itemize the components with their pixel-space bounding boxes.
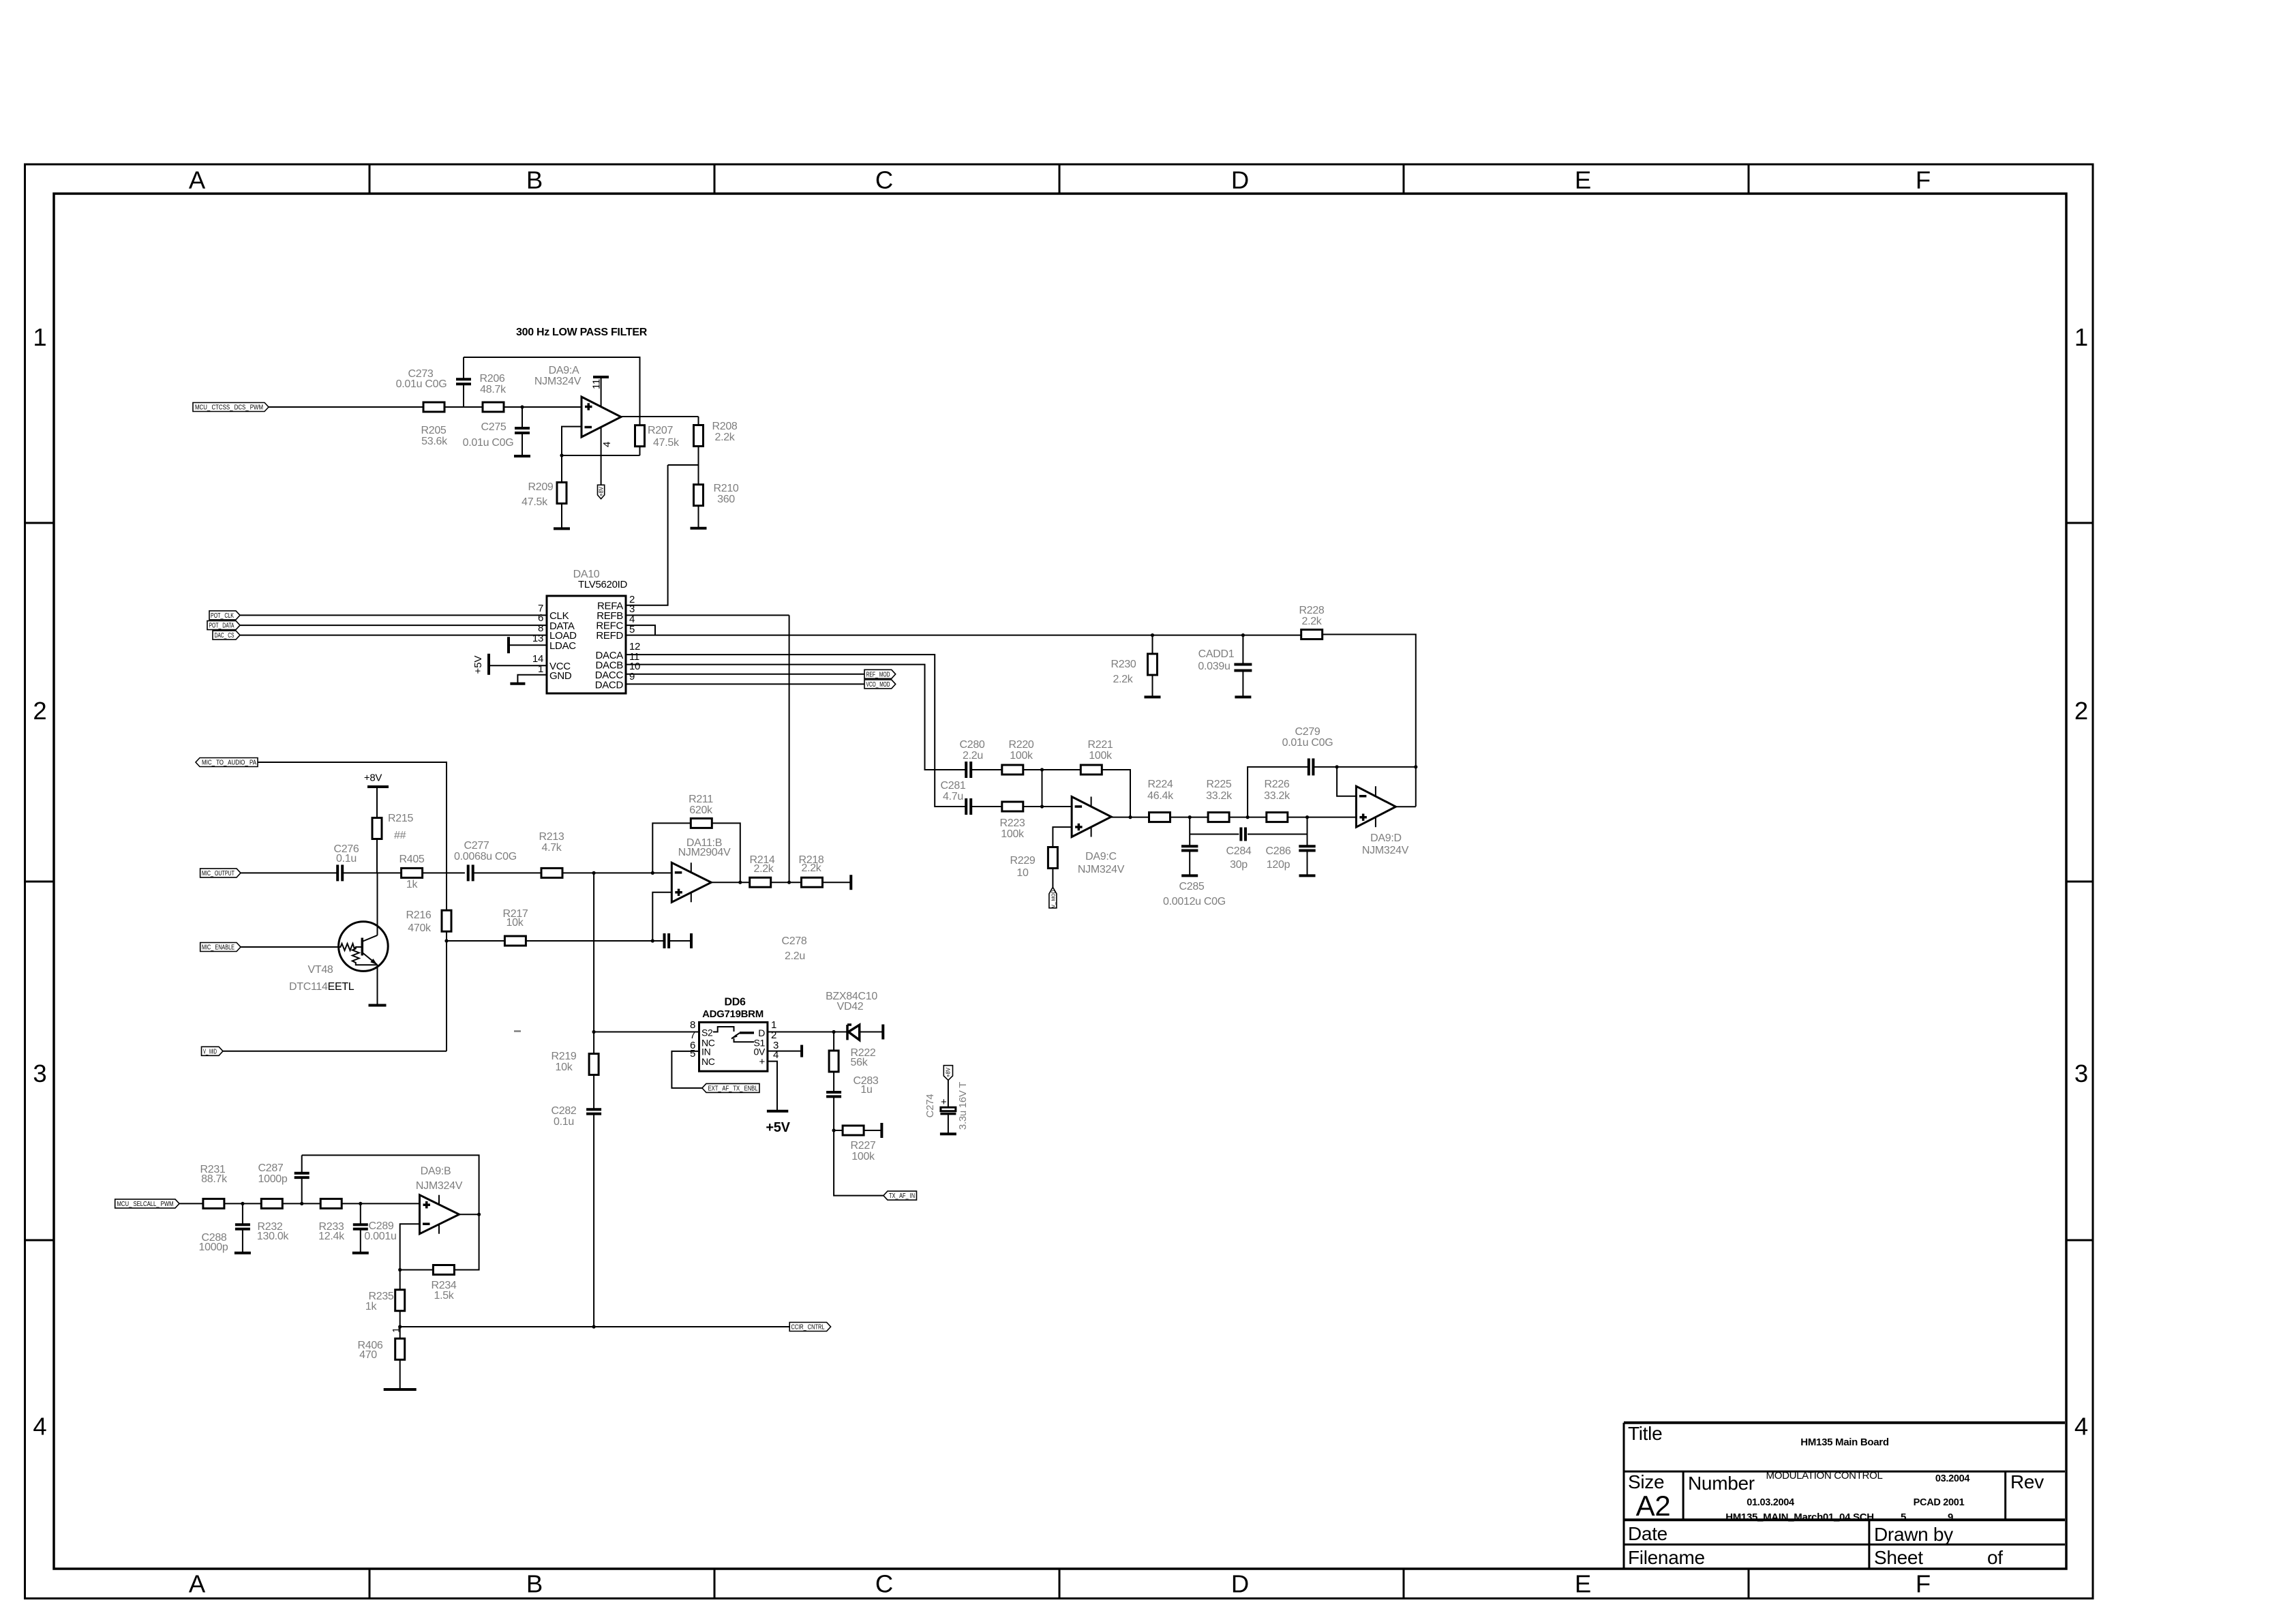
svg-text:A: A	[189, 166, 206, 194]
svg-text:C287: C287	[258, 1162, 283, 1174]
wire MIC_TO_AUDIO_PA down to mic line	[258, 762, 447, 873]
svg-text:1k: 1k	[406, 879, 419, 890]
wire R221 feedback to output	[1102, 770, 1130, 817]
svg-text:R219: R219	[551, 1051, 576, 1062]
wire MIC_OUTPUT to C276	[241, 872, 337, 873]
wire R206 to op-amp + input	[504, 406, 581, 408]
svg-text:2.2k: 2.2k	[753, 863, 774, 875]
net flag CCIR_CNTRL	[789, 1323, 830, 1332]
resistor R222	[833, 1032, 834, 1051]
svg-text:2.2u: 2.2u	[963, 750, 983, 762]
ground R209	[554, 527, 570, 530]
ground R230	[1145, 695, 1161, 698]
svg-text:0.039u: 0.039u	[1198, 661, 1230, 672]
wire R223 to DA9:C minus	[1023, 806, 1072, 807]
pin 10 DACC to REF_MOD	[626, 674, 864, 675]
resistor R227	[834, 1130, 843, 1131]
resistor R220	[1002, 765, 1023, 775]
svg-text:DAC_ CS: DAC_ CS	[215, 632, 235, 640]
wire DA9:B output	[459, 1214, 479, 1215]
svg-text:+: +	[941, 1096, 947, 1108]
svg-text:Date: Date	[1628, 1523, 1667, 1544]
svg-text:EXT_ AF_ TX_ ENBL: EXT_ AF_ TX_ ENBL	[708, 1085, 758, 1092]
svg-text:4.7k: 4.7k	[541, 842, 562, 854]
svg-text:11: 11	[591, 379, 603, 389]
pin 13 LDAC stub	[509, 644, 547, 646]
switch symbol inside DD6	[713, 1027, 734, 1032]
net flag TX_AF_IN	[883, 1191, 917, 1200]
capacitor C284 bridge	[1190, 834, 1239, 835]
resistor R219	[589, 1054, 599, 1075]
pin 9 DACD to VCO_MOD	[626, 683, 864, 685]
svg-text:R206: R206	[479, 373, 504, 385]
resistor R216	[446, 873, 447, 910]
svg-text:DA9:A: DA9:A	[549, 365, 579, 376]
svg-text:1.5k: 1.5k	[434, 1290, 454, 1302]
capacitor CADD1	[1241, 633, 1245, 637]
svg-text:##: ##	[394, 830, 406, 841]
svg-text:GND: GND	[549, 670, 572, 682]
wire CCIR_CNTRL net	[400, 1326, 789, 1327]
svg-text:4.7u: 4.7u	[943, 791, 963, 802]
svg-text:C280: C280	[959, 739, 984, 751]
wire R233 to DA9:B plus	[342, 1203, 420, 1204]
svg-text:Number: Number	[1688, 1473, 1755, 1494]
svg-text:MCU_ SELCALL_ PWM: MCU_ SELCALL_ PWM	[117, 1201, 174, 1208]
svg-text:S2: S2	[701, 1027, 713, 1038]
resistor R223	[1002, 802, 1023, 811]
resistor R231	[203, 1199, 224, 1208]
svg-text:Filename: Filename	[1628, 1547, 1705, 1568]
op-amp U DA9:B	[420, 1195, 459, 1234]
svg-text:B: B	[526, 1570, 543, 1598]
svg-text:R207: R207	[648, 425, 673, 436]
svg-text:+5V: +5V	[472, 655, 484, 674]
svg-text:DA9:D: DA9:D	[1370, 832, 1402, 844]
IC DA10 TLV5620ID	[547, 596, 626, 693]
svg-text:R208: R208	[712, 421, 737, 432]
wire R217 to C278	[526, 940, 664, 942]
svg-text:R205: R205	[421, 425, 446, 436]
op-amp U DA9:D	[1356, 786, 1395, 827]
capacitor C289	[360, 1203, 361, 1224]
pin 11 power DA9:A	[601, 377, 602, 406]
pin 4 power DA9:A	[601, 427, 602, 485]
zener diode VD42 BZX84C10	[834, 1032, 847, 1033]
svg-text:100k: 100k	[1001, 828, 1025, 840]
svg-text:VCO_ MOD: VCO_ MOD	[866, 681, 890, 689]
svg-text:1: 1	[538, 663, 543, 675]
svg-text:12.4k: 12.4k	[318, 1231, 345, 1242]
wire output DA9:A	[621, 416, 699, 417]
svg-text:R213: R213	[539, 831, 564, 843]
svg-text:C281: C281	[940, 780, 965, 792]
capacitor C278	[663, 933, 666, 948]
svg-text:360: 360	[717, 494, 735, 505]
resistor R214	[750, 877, 771, 887]
net flag MCU_SELCALL_PWM	[115, 1199, 179, 1208]
svg-text:NC: NC	[701, 1056, 715, 1067]
svg-text:0.01u C0G: 0.01u C0G	[463, 437, 514, 449]
wire inverting feedback	[562, 427, 640, 455]
svg-text:0.1u: 0.1u	[554, 1116, 574, 1128]
svg-text:10: 10	[1016, 867, 1029, 879]
ground C275	[514, 455, 530, 457]
net flag MIC_OUTPUT	[200, 869, 241, 877]
capacitor C279	[1248, 767, 1309, 817]
wire mic minus node down to DD6	[593, 873, 594, 1054]
svg-text:R220: R220	[1008, 739, 1033, 751]
svg-text:R230: R230	[1111, 659, 1136, 670]
svg-text:2.2k: 2.2k	[1301, 616, 1322, 627]
wire R226 to DA9:D plus	[1287, 817, 1357, 818]
wire DA9:D minus jog	[1337, 767, 1356, 796]
capacitor C274 standalone	[943, 1066, 952, 1081]
svg-text:4: 4	[773, 1049, 779, 1061]
IC DD6 ADG719BRM	[699, 1022, 768, 1071]
svg-text:Rev: Rev	[2010, 1471, 2044, 1492]
net flag MIC_TO_AUDIO_PA	[196, 758, 258, 767]
resistor R209	[561, 455, 562, 483]
net flag V_MID	[202, 1047, 224, 1055]
resistor R235	[399, 1270, 401, 1291]
transistor VT48 DTC114EETL	[339, 922, 389, 972]
border frame	[25, 164, 2094, 1599]
svg-text:POT_ CLK: POT_ CLK	[211, 612, 234, 620]
wire R232 to R233	[283, 1203, 321, 1204]
svg-text:F: F	[1916, 1570, 1931, 1598]
wire DA11:B plus input	[652, 892, 671, 941]
svg-text:01.03.2004: 01.03.2004	[1747, 1497, 1794, 1508]
wire DA11:B output to R214	[711, 882, 750, 883]
svg-text:5: 5	[690, 1048, 695, 1059]
svg-text:3: 3	[33, 1059, 46, 1087]
wire to TX_AF_IN	[834, 1130, 883, 1196]
svg-text:+8V: +8V	[946, 1067, 952, 1077]
wire mic enable line to V_MID riser	[446, 941, 447, 1051]
ground VT48 emitter	[369, 1004, 387, 1007]
svg-text:2.2k: 2.2k	[1113, 674, 1133, 685]
svg-text:HM135_MAIN_March01_04.SCH: HM135_MAIN_March01_04.SCH	[1725, 1512, 1874, 1523]
wire R217 line	[447, 940, 505, 942]
wire DA9:D output	[1395, 806, 1415, 807]
svg-text:E: E	[1575, 166, 1591, 194]
svg-text:47.5k: 47.5k	[653, 437, 680, 449]
svg-text:2.2k: 2.2k	[714, 432, 735, 443]
svg-text:of: of	[1987, 1547, 2003, 1568]
capacitor C281	[965, 798, 967, 815]
net flag MIC_ENABLE	[200, 943, 241, 952]
svg-text:0.001u: 0.001u	[364, 1231, 396, 1242]
capacitor C275	[522, 407, 523, 428]
svg-text:R225: R225	[1206, 779, 1231, 790]
wire C287 feedback rail	[302, 1155, 479, 1214]
ground R210	[691, 527, 707, 530]
svg-text:1k: 1k	[365, 1301, 378, 1312]
capacitor C285	[1189, 817, 1190, 847]
stray dash mark	[514, 1030, 521, 1032]
svg-text:100k: 100k	[1089, 750, 1113, 762]
resistor R226	[1267, 813, 1288, 822]
svg-text:9: 9	[629, 671, 635, 682]
svg-text:R210: R210	[713, 483, 738, 494]
pin 12 DACA	[626, 655, 966, 807]
resistor R230	[1151, 633, 1154, 637]
svg-text:C278: C278	[781, 935, 806, 947]
capacitor C280	[965, 762, 967, 778]
pin 14 VCC +5V bar	[489, 665, 547, 666]
wire REFA riser	[626, 465, 668, 605]
wire R218 stub end	[822, 882, 851, 883]
net flag VCO_MOD	[864, 680, 896, 689]
net flag DAC_CS	[213, 631, 240, 640]
capacitor C286	[1307, 817, 1308, 847]
svg-text:CADD1: CADD1	[1198, 648, 1235, 660]
svg-text:V_ MID: V_ MID	[203, 1048, 217, 1055]
wire MCU_CTCSS_DCS_PWM to R205	[269, 406, 423, 408]
svg-text:F: F	[1916, 166, 1931, 194]
svg-text:120p: 120p	[1267, 859, 1290, 871]
svg-text:NJM324V: NJM324V	[1078, 864, 1125, 875]
svg-text:2.2u: 2.2u	[785, 950, 805, 962]
net flag POT_CLK	[209, 611, 240, 620]
op-amp U DA11:B	[671, 862, 711, 902]
capacitor C273	[463, 384, 464, 407]
svg-text:VT48: VT48	[307, 964, 333, 976]
wire DA9:C output	[1111, 817, 1150, 818]
capacitor C277	[467, 864, 470, 881]
net flag POT_DATA	[207, 621, 240, 630]
capacitor C283	[833, 1071, 834, 1092]
svg-text:53.6k: 53.6k	[421, 436, 448, 447]
svg-text:2: 2	[2074, 697, 2088, 725]
wire DAC_CS to pin 8	[240, 635, 547, 636]
svg-text:NJM2904V: NJM2904V	[678, 847, 731, 858]
svg-text:NJM324V: NJM324V	[416, 1180, 463, 1192]
svg-text:D: D	[1231, 166, 1249, 194]
wire C276 to R405	[343, 872, 402, 873]
svg-text:10k: 10k	[507, 917, 524, 929]
wire R220 to R221	[1023, 769, 1081, 770]
svg-text:LDAC: LDAC	[549, 640, 576, 652]
svg-text:R209: R209	[528, 481, 553, 493]
svg-text:A2: A2	[1636, 1490, 1671, 1522]
node R209 junction	[560, 453, 563, 457]
wire C281 to R223	[971, 806, 1002, 807]
wire C277 to R213	[474, 872, 542, 873]
capacitor C282	[586, 1108, 601, 1111]
resistor R233	[320, 1199, 342, 1208]
wire R208 to REFA riser	[668, 464, 699, 466]
svg-text:300 Hz LOW PASS FILTER: 300 Hz LOW PASS FILTER	[516, 327, 648, 338]
svg-text:46.4k: 46.4k	[1147, 790, 1174, 802]
wire REFB riser down	[789, 615, 790, 882]
svg-text:PCAD 2001: PCAD 2001	[1914, 1497, 1965, 1508]
op-amp U DA9:A	[581, 397, 621, 437]
capacitor C276	[336, 864, 339, 881]
power +5V bar	[767, 1110, 788, 1113]
resistor R229	[1048, 847, 1057, 869]
power flag +8V at pin 4	[598, 485, 605, 498]
svg-text:1000p: 1000p	[199, 1242, 228, 1253]
ground C289	[352, 1252, 369, 1254]
resistor R228	[1301, 630, 1323, 640]
capacitor C287	[301, 1177, 303, 1203]
svg-text:Sheet: Sheet	[1874, 1547, 1923, 1568]
wire DA9:B minus to R234 node	[400, 1224, 420, 1269]
wire R228 to feedback riser	[1323, 635, 1416, 807]
pin 3 0V stub	[768, 1051, 802, 1052]
svg-text:0.01u C0G: 0.01u C0G	[396, 378, 447, 390]
title block	[1624, 1423, 2065, 1569]
svg-text:100k: 100k	[1010, 750, 1033, 762]
resistor R215	[372, 818, 382, 839]
wire R405 to C277	[422, 872, 465, 873]
svg-text:TX_ AF_ IN: TX_ AF_ IN	[889, 1192, 915, 1200]
svg-text:R223: R223	[999, 817, 1025, 829]
svg-text:0.1u: 0.1u	[336, 853, 357, 864]
svg-text:NJM324V: NJM324V	[1362, 845, 1409, 856]
resistor R225	[1208, 813, 1229, 822]
wire R224 to R225	[1170, 817, 1209, 818]
svg-text:POT_ DATA: POT_ DATA	[209, 622, 235, 630]
net flag REF_MOD	[864, 670, 896, 678]
svg-text:R229: R229	[1010, 855, 1035, 867]
svg-text:D: D	[1231, 1570, 1249, 1598]
resistor R211 feedback	[652, 823, 691, 873]
svg-text:C275: C275	[481, 421, 506, 433]
ground C286	[1299, 874, 1316, 877]
svg-text:0.0012u C0G: 0.0012u C0G	[1163, 896, 1226, 907]
svg-text:MCU_ CTCSS_ DCS_ PWM: MCU_ CTCSS_ DCS_ PWM	[195, 404, 263, 412]
svg-text:C277: C277	[464, 840, 489, 852]
svg-text:C: C	[875, 166, 893, 194]
svg-text:REF_ MOD: REF_ MOD	[866, 671, 890, 678]
pin 3 REFB	[626, 614, 789, 616]
svg-text:R211: R211	[689, 794, 713, 805]
wire R219 to C282	[593, 1074, 594, 1109]
svg-text:2: 2	[33, 697, 46, 725]
svg-text:1u: 1u	[860, 1084, 872, 1096]
ground R406	[384, 1388, 417, 1391]
svg-text:DACD: DACD	[595, 680, 624, 691]
svg-text:R227: R227	[850, 1140, 875, 1152]
svg-text:DA9:B: DA9:B	[421, 1166, 451, 1177]
net flag EXT_AF_TX_ENBL	[671, 1051, 702, 1088]
svg-text:88.7k: 88.7k	[201, 1173, 228, 1185]
svg-text:+5V: +5V	[766, 1120, 790, 1135]
wire POT_CLK to pin 7	[240, 614, 547, 616]
svg-text:1: 1	[2074, 323, 2088, 351]
node junction C275 tap	[520, 405, 524, 408]
wire DA9:C plus input to R229	[1053, 827, 1072, 847]
svg-text:3.3u 16V T: 3.3u 16V T	[957, 1082, 969, 1130]
svg-text:56k: 56k	[851, 1057, 868, 1068]
resistor R213	[541, 868, 562, 877]
svg-text:4: 4	[33, 1413, 46, 1441]
svg-text:R215: R215	[388, 813, 413, 824]
svg-text:E: E	[1575, 1570, 1591, 1598]
svg-text:R221: R221	[1087, 739, 1113, 751]
svg-text:R228: R228	[1299, 605, 1324, 616]
svg-text:03.2004: 03.2004	[1935, 1473, 1970, 1484]
node minus junction top	[1040, 768, 1044, 771]
svg-text:2.2k: 2.2k	[801, 862, 821, 874]
svg-text:MIC_ OUTPUT: MIC_ OUTPUT	[202, 870, 235, 877]
svg-text:13: 13	[532, 633, 543, 644]
svg-text:DA9:C: DA9:C	[1085, 851, 1117, 862]
svg-text:MODULATION CONTROL: MODULATION CONTROL	[1766, 1470, 1883, 1482]
svg-text:0.01u C0G: 0.01u C0G	[1282, 737, 1333, 749]
op-amp U DA9:C	[1072, 797, 1111, 837]
svg-text:1: 1	[33, 323, 46, 351]
svg-text:130.0k: 130.0k	[257, 1231, 290, 1242]
resistor R406	[399, 1327, 401, 1339]
svg-text:C285: C285	[1179, 881, 1204, 892]
pin 11 DACB	[626, 665, 966, 770]
svg-text:DTC114EETL: DTC114EETL	[289, 981, 354, 993]
resistor R205	[423, 402, 444, 412]
svg-text:CCIR_ CNTRL: CCIR_ CNTRL	[791, 1324, 825, 1332]
pin 1 GND	[517, 675, 547, 684]
pin 4 plus to +5V	[768, 1062, 777, 1111]
wire to R231	[179, 1203, 203, 1204]
wire R215 to mic line	[376, 839, 378, 873]
svg-text:C: C	[875, 1570, 893, 1598]
svg-text:48.7k: 48.7k	[480, 384, 507, 395]
svg-text:Title: Title	[1628, 1423, 1662, 1444]
svg-text:+: +	[759, 1056, 766, 1068]
svg-text:0.0068u C0G: 0.0068u C0G	[454, 851, 517, 862]
svg-text:3: 3	[2074, 1059, 2088, 1087]
svg-text:ADG719BRM: ADG719BRM	[702, 1008, 764, 1020]
pin 1 D	[768, 1032, 834, 1033]
resistor R221	[1081, 765, 1102, 775]
svg-text:4: 4	[601, 442, 613, 447]
svg-text:R224: R224	[1147, 779, 1173, 790]
svg-text:+8V: +8V	[364, 772, 382, 784]
svg-text:C274: C274	[924, 1094, 936, 1118]
svg-text:5: 5	[1901, 1512, 1906, 1523]
svg-text:R216: R216	[406, 909, 431, 921]
svg-text:B: B	[526, 166, 543, 194]
svg-text:REFD: REFD	[596, 630, 623, 642]
svg-text:Drawn by: Drawn by	[1874, 1524, 1953, 1545]
svg-text:C286: C286	[1265, 845, 1290, 857]
svg-text:R226: R226	[1264, 779, 1289, 790]
svg-text:9: 9	[1948, 1512, 1953, 1523]
pin 4 REFC	[626, 625, 655, 635]
wire R205 to R206	[444, 406, 483, 408]
resistor R207	[639, 417, 641, 426]
wire junction down to R223 line	[1042, 770, 1043, 807]
resistor R208	[698, 417, 699, 425]
resistor R206	[483, 402, 504, 412]
svg-text:C279: C279	[1295, 726, 1320, 738]
wire S2 pin 8	[594, 1032, 699, 1033]
svg-text:MIC_ TO_ AUDIO_ PA: MIC_ TO_ AUDIO_ PA	[202, 760, 256, 767]
svg-text:V_ MOD: V_ MOD	[1051, 890, 1057, 908]
svg-text:30p: 30p	[1230, 859, 1248, 871]
ground CADD1	[1235, 695, 1251, 698]
resistor R405	[402, 868, 423, 877]
resistor R224	[1149, 813, 1170, 822]
svg-text:TLV5620ID: TLV5620ID	[578, 579, 628, 590]
ground C288	[235, 1252, 251, 1254]
resistor R234	[400, 1269, 434, 1271]
svg-text:5: 5	[629, 624, 635, 635]
svg-text:HM135 Main Board: HM135 Main Board	[1800, 1437, 1889, 1448]
